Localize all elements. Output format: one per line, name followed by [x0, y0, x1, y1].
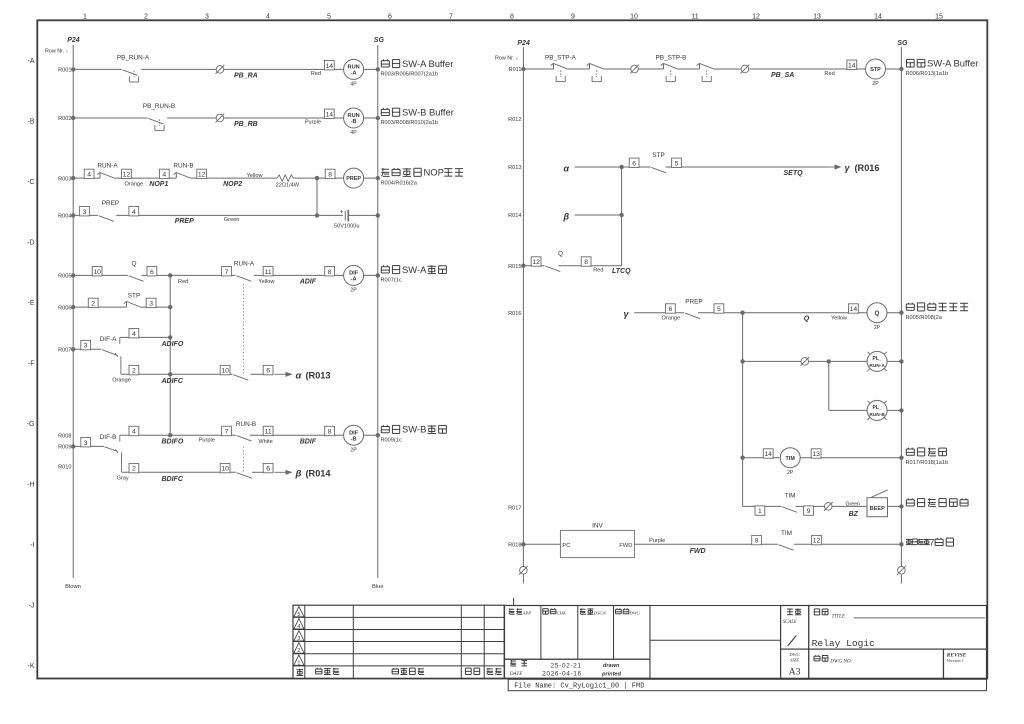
lamp PL RUN-B [867, 400, 887, 420]
coil Q [867, 303, 887, 331]
svg-text:12: 12 [752, 13, 760, 20]
contact Q (NO) R005 [129, 260, 144, 281]
color label Orange R016 [662, 316, 681, 322]
pin 8 R015 [581, 257, 591, 266]
capacitor 50V1000u [334, 210, 360, 230]
coil DIF-A [344, 265, 364, 293]
color label Red R005 [178, 279, 188, 285]
svg-text:-I: -I [30, 542, 34, 549]
wire rung R005 [71, 273, 380, 277]
contact STP (NC) R006 [124, 293, 141, 308]
svg-text:Purple: Purple [649, 538, 665, 544]
terminal symbol PL row [800, 357, 809, 366]
svg-text:FWD: FWD [619, 543, 632, 549]
color label Yellow R005 [258, 279, 275, 285]
svg-text:drawn: drawn [603, 663, 620, 669]
coil PREP [344, 168, 364, 188]
svg-text:TIM: TIM [786, 456, 796, 462]
svg-text:R007(1c: R007(1c [381, 278, 402, 284]
wire rung R006 [71, 305, 172, 309]
lamp PL RUN-A [867, 351, 887, 371]
svg-text:SW-B Buffer: SW-B Buffer [402, 107, 454, 118]
svg-text:α: α [564, 163, 570, 173]
svg-text:-B: -B [351, 436, 357, 442]
wire name BDIFC [162, 476, 184, 483]
svg-text:-E: -E [28, 300, 35, 307]
wire name PREP [175, 218, 194, 225]
svg-text:2P: 2P [874, 325, 881, 331]
svg-text:SG: SG [897, 40, 908, 47]
pushbutton PB_RUN-A (NO) [117, 55, 150, 82]
rung title: start operation memory [906, 303, 969, 321]
svg-text:4: 4 [162, 172, 166, 179]
color label Red R015 [593, 268, 603, 274]
svg-text:14: 14 [764, 451, 772, 458]
rung title: Stop SW-A Buffer [906, 58, 979, 78]
svg-text:7: 7 [449, 13, 453, 20]
contact RUN-B (NO) BDIFO [236, 421, 256, 441]
color label Yellow R003 [247, 173, 264, 179]
svg-text:SIZE: SIZE [790, 657, 799, 662]
svg-text:printed: printed [601, 672, 622, 678]
pin 12 R003 second [197, 169, 207, 178]
column numbers 1-15 [83, 13, 943, 20]
svg-text:Green: Green [224, 217, 240, 223]
svg-text:-J: -J [29, 602, 35, 609]
svg-text:Red: Red [178, 279, 188, 285]
svg-text:22Ω1/4W: 22Ω1/4W [276, 182, 300, 188]
svg-text:R015: R015 [508, 264, 521, 270]
node line PL branch [828, 361, 830, 410]
pin 7 R005 [222, 267, 232, 276]
P24 rail (left) [65, 37, 81, 590]
pin 8 R018 [752, 535, 762, 544]
svg-text:4: 4 [266, 13, 270, 20]
svg-text:R001: R001 [58, 68, 71, 74]
svg-text:PB_RA: PB_RA [234, 73, 258, 80]
svg-text:P24: P24 [67, 37, 80, 44]
svg-text:Red: Red [311, 71, 321, 77]
svg-text:4P: 4P [350, 82, 357, 88]
color label Purple BDIFO [199, 437, 215, 443]
pin 10 R005 [92, 267, 102, 276]
color label White BDIFO [258, 439, 272, 445]
pin 2 ADIFC [129, 365, 139, 374]
svg-text:β: β [295, 468, 302, 479]
svg-text:RUN-B: RUN-B [869, 412, 885, 418]
svg-text:R010: R010 [58, 465, 71, 471]
svg-text:2P: 2P [872, 81, 879, 87]
row number labels R001-R010 [58, 68, 71, 471]
svg-text:PB_STP-B: PB_STP-B [656, 55, 687, 62]
svg-text:6: 6 [150, 269, 154, 276]
svg-text:1: 1 [297, 660, 300, 666]
svg-text:25-02-21: 25-02-21 [551, 662, 582, 669]
svg-text:5: 5 [675, 160, 679, 167]
svg-text:Q: Q [875, 311, 880, 317]
svg-text:2P: 2P [787, 470, 794, 476]
wire name SETQ [784, 170, 804, 177]
coil RUN-A [344, 59, 364, 87]
svg-text:R014: R014 [508, 213, 521, 219]
svg-text:DWG: DWG [629, 611, 641, 616]
svg-text:R003/R008/R010(2a1b: R003/R008/R010(2a1b [381, 120, 439, 126]
node line R016 branch [742, 313, 744, 507]
svg-text:Relay Logic: Relay Logic [812, 638, 876, 649]
svg-text:SW-A Buffer: SW-A Buffer [927, 58, 978, 69]
svg-text:Yellow: Yellow [247, 173, 264, 179]
svg-text:Blown: Blown [65, 584, 81, 590]
svg-text:-K: -K [28, 663, 35, 670]
wire BEEP row [743, 504, 904, 508]
pin 11 BDIFO [263, 426, 273, 435]
svg-text:4: 4 [297, 624, 300, 630]
svg-text:4: 4 [132, 429, 136, 436]
wire lamp PL RUN-A row [740, 359, 903, 363]
svg-text:PB_RB: PB_RB [234, 121, 258, 128]
arrow to alpha R013 [275, 370, 331, 381]
terminal symbol R002 [216, 114, 225, 123]
revision table header labels [296, 668, 501, 676]
wire rung R014 [575, 213, 624, 217]
svg-text:Red: Red [593, 268, 603, 274]
svg-text:R012: R012 [508, 117, 521, 123]
pin 12 R003 first [122, 169, 132, 178]
wire rung R007 [71, 347, 121, 374]
wire name BDIF [300, 438, 317, 445]
svg-text:SW-A: SW-A [402, 264, 427, 275]
svg-text:Q: Q [804, 316, 810, 323]
wire name NOP2 [223, 181, 242, 188]
svg-text:6: 6 [669, 306, 673, 313]
svg-text:R008: R008 [58, 433, 71, 439]
contact RUN-B (NC) R003 [173, 163, 193, 179]
svg-text:PB_STP-A: PB_STP-A [545, 55, 577, 62]
svg-text:STP: STP [652, 152, 664, 159]
svg-text:2: 2 [132, 466, 136, 473]
wire rung R018 [521, 542, 903, 546]
svg-text:SG: SG [374, 37, 385, 44]
svg-text:7: 7 [225, 429, 229, 436]
wire BDIFO (DIF-B aux contact) [100, 433, 380, 442]
wire rung R003 [71, 176, 380, 180]
svg-text:A3: A3 [789, 666, 801, 677]
pin 9 BEEP row [804, 506, 814, 515]
branch wire R003-R004 [316, 178, 318, 215]
svg-text:2026-04-16: 2026-04-16 [542, 671, 582, 678]
terminal symbol R011 a [630, 65, 639, 74]
svg-text:TIM: TIM [781, 530, 792, 537]
svg-text:PB_SA: PB_SA [771, 72, 794, 79]
svg-text:2: 2 [297, 648, 300, 654]
color label Purple R018 [649, 538, 665, 544]
svg-text:(R016: (R016 [855, 163, 880, 173]
terminal at bottom of SG rail (right) [897, 566, 906, 584]
wire ADIFC [121, 372, 263, 376]
pin 4 R003 first [84, 169, 94, 178]
svg-text:-B: -B [351, 119, 357, 125]
svg-text:PL_: PL_ [873, 356, 882, 362]
inverter INV block [560, 523, 634, 558]
coil RUN-B [344, 108, 364, 136]
color label Gray BDIFC [117, 475, 129, 481]
svg-text:White: White [258, 439, 272, 445]
color label Orange ADIFC [112, 378, 131, 384]
svg-text:2: 2 [132, 368, 136, 375]
pin 14 R011 [847, 60, 857, 69]
wire name Q [804, 316, 810, 323]
svg-text:9: 9 [807, 508, 811, 515]
svg-text:RUN-A: RUN-A [869, 363, 885, 369]
SG rail (right) [897, 40, 908, 566]
node line R013-R015 [621, 167, 623, 266]
wire name FWD [690, 548, 706, 555]
pin 4 ADIFO [129, 329, 139, 338]
svg-text:-B: -B [28, 118, 35, 125]
svg-text:File Name: Cv_RyLogic1_00 | F: File Name: Cv_RyLogic1_00 | FMD [514, 683, 644, 691]
pin 14 R016 [849, 304, 859, 313]
arrow to gamma R016 [828, 163, 880, 173]
wire TIM coil row [740, 456, 903, 460]
svg-text:FWD: FWD [690, 548, 706, 555]
svg-text:R005: R005 [58, 274, 71, 280]
svg-text:BDIFC: BDIFC [162, 476, 184, 483]
svg-text:R004: R004 [58, 214, 71, 220]
pin 5 R016 [714, 304, 724, 313]
svg-text:TITLE: TITLE [832, 613, 846, 619]
svg-text:LTCQ: LTCQ [612, 268, 631, 275]
svg-text:12: 12 [198, 172, 206, 179]
svg-text:-D: -D [27, 239, 34, 246]
pin 13 TIM [811, 449, 821, 458]
svg-text:8: 8 [510, 13, 514, 20]
contact TIM (NO) R018 [779, 530, 794, 550]
svg-text:R006/R013(1a1b: R006/R013(1a1b [906, 71, 949, 77]
color label Purple [305, 120, 321, 126]
svg-text:13: 13 [813, 13, 821, 20]
svg-text:3: 3 [84, 440, 88, 447]
wire rung R002 [71, 116, 380, 120]
pin 11 R005 [263, 267, 273, 276]
svg-text:6: 6 [388, 13, 392, 20]
svg-text:PB_RUN-A: PB_RUN-A [117, 55, 150, 62]
svg-text:8: 8 [755, 538, 759, 545]
svg-text:NOP: NOP [424, 167, 444, 178]
wire name ADIFO [161, 341, 184, 348]
pin 8 BDIFO [325, 426, 335, 435]
contact TIM (NO) BEEP row [782, 493, 797, 513]
svg-text:14: 14 [874, 13, 882, 20]
svg-text:5: 5 [717, 306, 721, 313]
svg-text:Red: Red [824, 71, 834, 77]
svg-text:R017/R018(1a1b: R017/R018(1a1b [906, 460, 949, 466]
row number labels R011-R018 [508, 67, 521, 548]
svg-text:-C: -C [27, 179, 34, 186]
contact BDIFC (NO) [237, 473, 252, 479]
pin 10 ADIFC [220, 365, 230, 374]
svg-text:SW-A Buffer: SW-A Buffer [402, 58, 453, 69]
wire name NOP1 [149, 181, 168, 188]
svg-text:R005/R008(2a: R005/R008(2a [906, 315, 943, 321]
svg-text:-H: -H [27, 481, 34, 488]
svg-text:Purple: Purple [305, 120, 321, 126]
revision table [293, 605, 504, 678]
svg-text:R007: R007 [58, 348, 71, 354]
wire rung R001 [71, 67, 380, 71]
pin 6 R005 [147, 267, 157, 276]
svg-text:6: 6 [266, 466, 270, 473]
svg-text:3: 3 [205, 13, 209, 20]
svg-text:CHK: CHK [557, 611, 567, 616]
terminal symbol R011 b [741, 65, 750, 74]
color label Orange R003 [125, 181, 144, 187]
svg-text:1: 1 [83, 13, 87, 20]
svg-text:8: 8 [328, 429, 332, 436]
svg-text:3: 3 [84, 343, 88, 350]
svg-text:Yellow: Yellow [258, 279, 275, 285]
svg-text:12: 12 [813, 538, 821, 545]
svg-text:R018: R018 [508, 543, 521, 549]
wire ADIFO (DIF-A aux contact) [100, 335, 173, 344]
svg-text:8: 8 [328, 269, 332, 276]
svg-text:13: 13 [812, 451, 820, 458]
svg-text:Orange: Orange [662, 316, 681, 322]
svg-text:Yellow: Yellow [831, 315, 848, 321]
contact RUN-A (NO) R005 [234, 260, 255, 281]
wire BDIFC [122, 471, 264, 473]
svg-text:STP: STP [128, 293, 140, 300]
svg-text:SW-B: SW-B [402, 424, 426, 435]
svg-text:R006: R006 [58, 305, 71, 311]
coil DIF-B [344, 425, 364, 453]
Row Nr. header (left) [45, 49, 68, 55]
middle blank box [650, 606, 781, 679]
svg-text:2: 2 [144, 13, 148, 20]
svg-text:-A: -A [351, 71, 357, 77]
svg-text:R009(1c: R009(1c [381, 437, 402, 443]
svg-text:RUN-A: RUN-A [234, 260, 255, 267]
svg-text:10: 10 [630, 13, 638, 20]
svg-text:14: 14 [326, 63, 334, 70]
pushbutton PB_STP-B (NC) contact 2 [697, 63, 714, 81]
svg-text:Row Nr. ↓: Row Nr. ↓ [45, 49, 68, 55]
row letters A-K [27, 58, 35, 670]
svg-text:14: 14 [848, 62, 856, 69]
wire rung R011 [521, 67, 903, 71]
pushbutton PB_RUN-B (NO) [143, 103, 175, 130]
linkage dotted line DIF-B [242, 447, 244, 472]
svg-text:Purple: Purple [199, 437, 215, 443]
svg-text:R016: R016 [508, 311, 521, 317]
SG rail (left) [372, 37, 384, 590]
svg-text:DWG NO.: DWG NO. [829, 658, 852, 664]
beta input label R014 [563, 211, 570, 221]
svg-text:4: 4 [132, 209, 136, 216]
date box [505, 659, 651, 678]
pin 7 BDIFO [222, 426, 232, 435]
linkage dotted line DIF-A [242, 284, 244, 374]
svg-text:RUN-B: RUN-B [173, 163, 193, 170]
terminal symbol BEEP row [824, 502, 833, 511]
wire name PB_SA [771, 72, 794, 79]
svg-text:R011: R011 [509, 67, 522, 73]
revise box [944, 649, 987, 678]
color label Green BEEP [846, 502, 861, 508]
wire name BZ [849, 511, 859, 518]
svg-text:6: 6 [632, 160, 636, 167]
pushbutton PB_STP-A (NC) contact 1 [545, 55, 577, 82]
wire rung R016 [634, 311, 903, 315]
color label Yellow R016 [831, 315, 848, 321]
Row Nr. header (right) [495, 56, 518, 62]
svg-text:NOP2: NOP2 [223, 181, 242, 188]
pin 12 R018 [812, 535, 822, 544]
svg-text:BDIF: BDIF [300, 438, 317, 445]
pin 4 R004 [129, 207, 139, 216]
rung title: conveyor start [906, 536, 954, 547]
svg-text:11: 11 [265, 429, 272, 436]
pin 5 R013 [672, 158, 682, 167]
svg-text:R004/R016(2a: R004/R016(2a [381, 180, 418, 186]
svg-text:14: 14 [850, 306, 858, 313]
svg-text:SCALE: SCALE [783, 620, 797, 625]
contact STP (NO) R013 [651, 152, 666, 173]
svg-text:R003/R005/R007(2a1b: R003/R005/R007(2a1b [381, 72, 439, 78]
pin 6 R013 [629, 158, 639, 167]
svg-text:BDIFO: BDIFO [162, 439, 184, 446]
resistor 22ohm 1/4W [276, 175, 300, 189]
svg-text:DIF-A: DIF-A [100, 336, 117, 343]
svg-text:PREP: PREP [102, 200, 119, 207]
pin 6 BDIFC [263, 463, 273, 472]
svg-text:PREP: PREP [346, 176, 361, 182]
contact RUN-A (NC) R003 [97, 163, 118, 179]
pin 6 ADIFC [263, 365, 273, 374]
wire name ADIF [299, 279, 317, 286]
rung title: Start SW-A Buffer [381, 58, 454, 78]
svg-text:NOP1: NOP1 [149, 181, 168, 188]
svg-text:P24: P24 [517, 40, 530, 47]
pin 8 R003 [325, 169, 335, 178]
color label Red [311, 71, 321, 77]
pin 12 R015 [531, 257, 541, 266]
svg-text:RUN-B: RUN-B [236, 421, 256, 428]
svg-text:DWG: DWG [788, 652, 800, 657]
svg-text:10: 10 [93, 269, 101, 276]
pin 14 R001 [324, 61, 334, 70]
svg-text:R002: R002 [58, 116, 71, 122]
scale box [781, 606, 809, 650]
color label Red R011 [824, 71, 834, 77]
svg-text:8: 8 [328, 172, 332, 179]
pin 14 TIM [763, 449, 773, 458]
svg-text:3: 3 [149, 301, 153, 308]
svg-text:INV: INV [592, 523, 603, 530]
drawing number box [809, 649, 944, 678]
svg-text:DSGN: DSGN [593, 611, 607, 616]
svg-text:5: 5 [327, 13, 331, 20]
svg-text:Version i: Version i [947, 658, 964, 663]
svg-text:β: β [563, 211, 570, 221]
gamma input label R016 [624, 309, 630, 319]
svg-text:2: 2 [91, 301, 95, 308]
rung title: start delay [906, 448, 949, 466]
svg-text:9: 9 [571, 13, 575, 20]
pin 6 R016 [666, 304, 676, 313]
wire rung R004 [71, 213, 380, 217]
svg-text:Orange: Orange [125, 181, 144, 187]
wire rung R015 [521, 264, 621, 268]
